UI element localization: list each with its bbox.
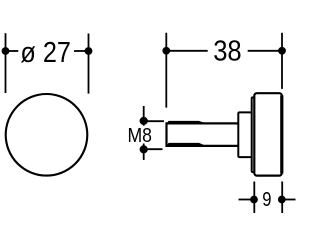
svg-text:M8: M8: [128, 125, 153, 147]
svg-text:9: 9: [262, 189, 271, 211]
svg-text:ø 27: ø 27: [20, 37, 71, 69]
svg-text:38: 38: [213, 35, 242, 67]
